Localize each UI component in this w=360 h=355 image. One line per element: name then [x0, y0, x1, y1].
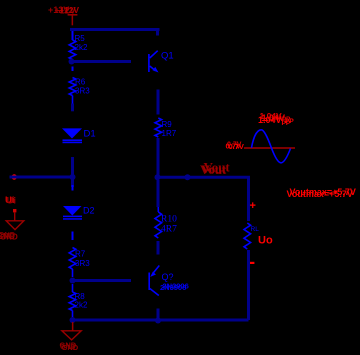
- wire R5 top lead: [72, 31, 74, 40]
- wire load to rail: [247, 250, 250, 320]
- waveform sine: [252, 130, 291, 163]
- waveform centerline: [244, 147, 295, 148]
- wire R8 bottom lead: [72, 311, 74, 318]
- resistor RL: [244, 223, 251, 249]
- wire R7 bottom lead: [72, 269, 74, 277]
- wire Q1 base: [71, 60, 131, 63]
- svg-text:3R3: 3R3: [75, 259, 90, 268]
- wire R10 top lead: [157, 207, 159, 212]
- svg-text:R10: R10: [161, 215, 177, 225]
- svg-text:D2: D2: [83, 206, 95, 216]
- svg-text:GND: GND: [60, 344, 76, 351]
- diode D1: [62, 128, 82, 138]
- resistor R9: [155, 118, 162, 137]
- svg-text:Uo: Uo: [258, 235, 273, 247]
- wire D1 to input node: [71, 157, 74, 187]
- svg-text:2k2: 2k2: [75, 43, 88, 52]
- wire Vout to R10: [157, 180, 160, 207]
- svg-text:GND: GND: [0, 230, 16, 239]
- svg-text:Ui: Ui: [7, 195, 17, 206]
- svg-text:0.7V: 0.7V: [227, 142, 242, 149]
- wire R6 bottom lead: [72, 96, 74, 105]
- svg-text:R9: R9: [162, 120, 173, 129]
- svg-text:2N3906: 2N3906: [163, 282, 189, 291]
- resistor R5: [69, 40, 76, 60]
- wire D2 to R7: [72, 232, 74, 241]
- wire top +12V rail: [70, 28, 160, 31]
- wire Q2 collector to rail: [157, 309, 160, 320]
- resistor R7: [69, 248, 76, 270]
- wire R9 to Vout: [157, 138, 160, 176]
- svg-text:Vout: Vout: [202, 162, 226, 176]
- wire R10 to Q2: [157, 241, 160, 255]
- node - label: [250, 262, 255, 264]
- node ground junction: [70, 317, 76, 323]
- transistor Q1: [148, 54, 150, 72]
- svg-text:3R3: 3R3: [75, 87, 90, 96]
- resistor R6: [69, 78, 76, 96]
- svg-text:Q?: Q?: [162, 272, 174, 282]
- svg-text:Voutmax=+5.7V: Voutmax=+5.7V: [290, 187, 356, 197]
- svg-text:+12V: +12V: [59, 5, 79, 15]
- node Q2 base junction: [70, 278, 76, 284]
- wire Vout: [156, 176, 250, 179]
- resistor R10: [155, 212, 162, 238]
- wire R6 top lead: [72, 67, 74, 72]
- svg-text:+: +: [250, 200, 256, 212]
- svg-text:D1: D1: [84, 129, 96, 140]
- wire Q1 emitter to R9: [157, 90, 160, 115]
- ground bottom: [72, 322, 74, 331]
- wire rail elbow down: [156, 30, 159, 36]
- wire Vout to load: [247, 177, 250, 221]
- node collector rail junction: [155, 318, 161, 324]
- +12V supply symbol: [68, 14, 78, 16]
- svg-text:R5: R5: [75, 34, 86, 43]
- node input junction: [70, 174, 76, 180]
- wire R8 top lead: [72, 284, 74, 292]
- svg-text:2k2: 2k2: [75, 301, 88, 310]
- ground input: [13, 209, 16, 212]
- svg-text:R6: R6: [75, 78, 86, 87]
- svg-text:RL: RL: [251, 226, 260, 233]
- wire input: [10, 176, 72, 179]
- svg-text:1R7: 1R7: [162, 129, 177, 138]
- node Q1 base junction: [69, 59, 75, 65]
- wire R6 to D1: [71, 104, 74, 112]
- input terminal: [12, 174, 17, 179]
- wire to D2: [72, 185, 74, 191]
- transistor Q2: [148, 273, 150, 291]
- svg-text:Q1: Q1: [161, 51, 174, 62]
- node Vout junction: [155, 174, 161, 180]
- diode D2: [63, 206, 82, 216]
- wire Q2 base: [71, 279, 131, 282]
- node Vout junction 2: [185, 174, 191, 180]
- svg-text:4R7: 4R7: [161, 225, 177, 235]
- wire bottom rail: [71, 319, 249, 322]
- svg-text:R7: R7: [75, 250, 86, 259]
- resistor R8: [69, 292, 76, 311]
